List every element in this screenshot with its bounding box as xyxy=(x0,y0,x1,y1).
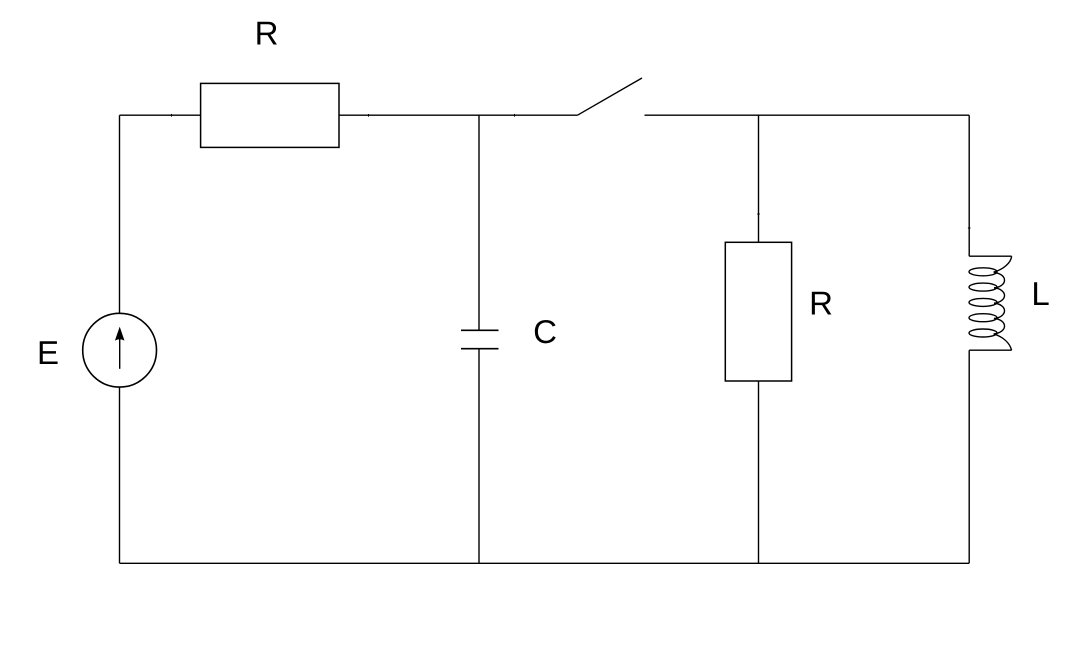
source E arrow shaft xyxy=(119,339,121,369)
svg-text:L: L xyxy=(1031,275,1049,312)
inductor L loop 1 xyxy=(969,268,997,276)
junction tick xyxy=(968,227,971,229)
switch blade (open) xyxy=(578,78,643,115)
inductor L turn arc 3 xyxy=(994,303,1005,319)
capacitor C bottom plate xyxy=(461,348,499,350)
inductor L entry arc xyxy=(994,256,1012,272)
junction tick xyxy=(514,114,516,117)
inductor L turn arc 1 xyxy=(994,272,1005,288)
junction tick xyxy=(757,213,760,215)
resistor R2 body xyxy=(725,242,791,381)
wire: switch right contact to top-right corner xyxy=(645,114,970,116)
svg-text:R: R xyxy=(255,15,279,52)
inductor L turn arc 4 xyxy=(994,318,1005,334)
inductor L top lead xyxy=(969,255,1011,257)
svg-text:E: E xyxy=(37,334,59,371)
wire: capacitor branch bottom xyxy=(478,349,480,564)
wire: resistor R1 to switch xyxy=(339,114,578,116)
inductor L loop 5 xyxy=(969,329,997,337)
capacitor C top plate xyxy=(461,329,499,331)
inductor L turn arc 2 xyxy=(994,288,1005,304)
inductor L loop 4 xyxy=(969,314,997,322)
wire: capacitor branch top xyxy=(478,115,480,330)
wire: inductor branch top xyxy=(968,115,970,256)
wire: resistor R2 branch top xyxy=(758,115,760,242)
junction tick xyxy=(171,114,173,117)
wire: source E bottom to bottom-left corner xyxy=(119,387,121,563)
source E circle xyxy=(83,313,157,387)
inductor L loop 2 xyxy=(969,283,997,291)
wire: top-left horizontal to resistor R1 xyxy=(120,114,201,116)
wire: bottom horizontal xyxy=(120,562,970,564)
inductor L bottom lead xyxy=(969,349,1011,351)
inductor L exit arc xyxy=(994,334,1012,350)
svg-text:R: R xyxy=(809,285,833,322)
inductor L loop 3 xyxy=(969,298,997,306)
resistor R1 body xyxy=(201,83,339,147)
wire: left vertical, node A to source E top xyxy=(119,115,121,313)
wire: inductor branch bottom xyxy=(968,350,970,563)
junction tick xyxy=(368,114,370,117)
source E arrowhead xyxy=(115,327,125,341)
wire: resistor R2 branch bottom xyxy=(758,381,760,563)
svg-text:C: C xyxy=(533,313,557,350)
